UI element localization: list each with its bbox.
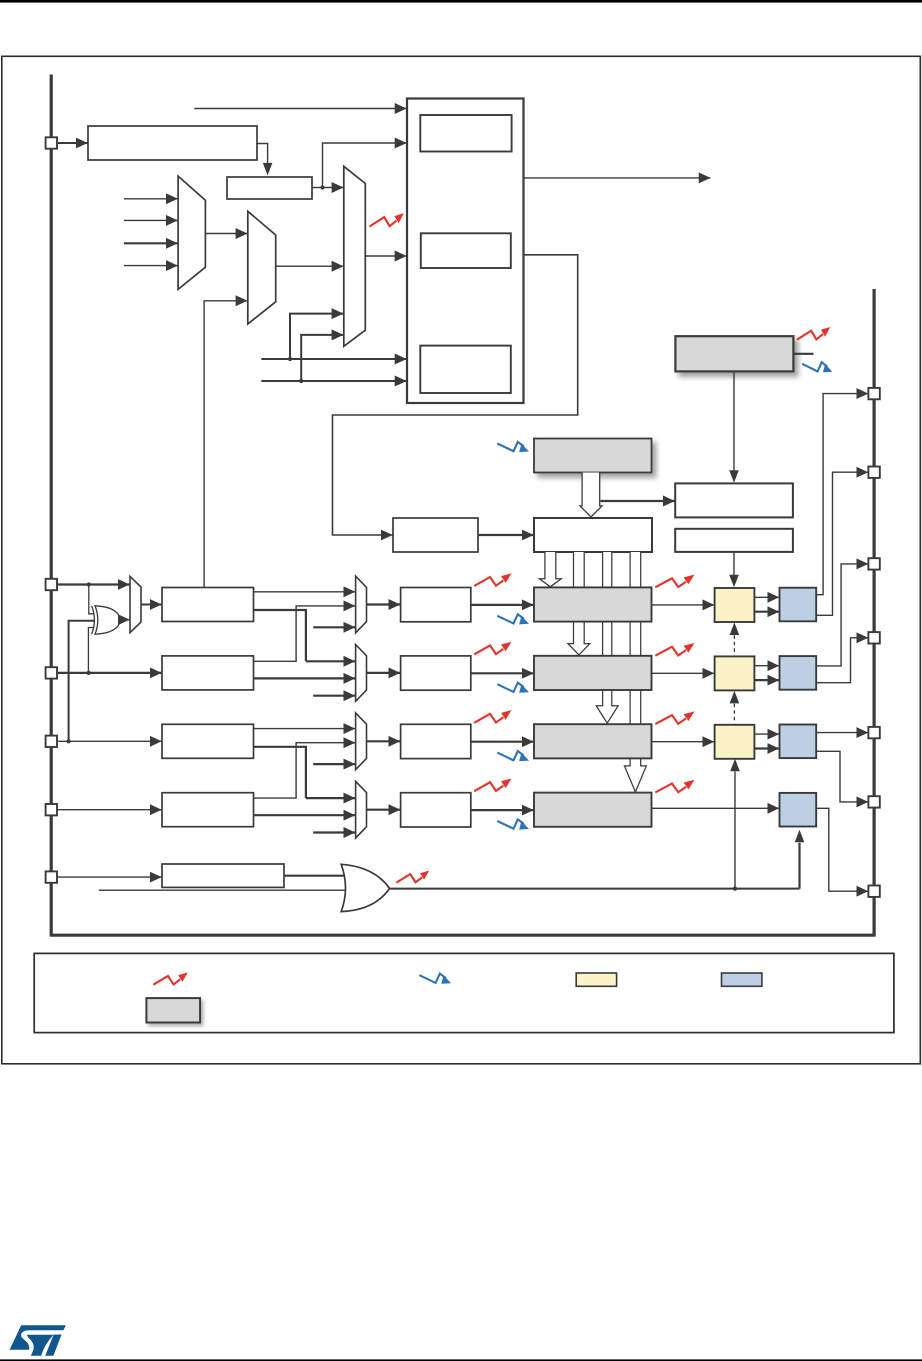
wire: OC2N to CH2N pin: [816, 638, 868, 683]
mux: capture input select ch4: [356, 781, 367, 838]
legend output stage box: [576, 973, 616, 986]
box: controller sub-block 2: [421, 233, 511, 268]
xor gate leading arc: [92, 606, 95, 634]
mux: capture input select ch1: [356, 576, 367, 633]
wire: controller input line 6: [261, 379, 406, 383]
box: input filter/edge detector ch3: [162, 724, 254, 758]
node: CH3N pin square: [868, 796, 879, 807]
wire: TI4FP4 to mux: [254, 814, 356, 816]
box: input capture prescaler ch3: [401, 724, 471, 758]
shadow+box: capture/compare register CCR4: [534, 793, 652, 827]
box: input capture prescaler ch4: [401, 793, 471, 827]
box: ETR polarity/edge/prescaler: [88, 126, 257, 160]
mux: trigger input mux (4-in): [178, 176, 205, 289]
node: TI2 input square: [46, 667, 57, 678]
box: output mode controller ch3: [715, 725, 755, 759]
wire: XOR input 1: [89, 585, 95, 614]
wire: ETRF up to OC3: [730, 759, 740, 889]
wire: ARR arrow to repetition register: [601, 500, 675, 502]
right bus (output pin rail): [872, 289, 875, 935]
wire: TRC stub ch3: [313, 763, 355, 765]
box: output mode controller ch2: [715, 656, 755, 690]
node: TI3 input square: [46, 736, 57, 747]
interrupt zigzag at CCR ch2: [497, 683, 529, 693]
wire: mux to prescaler ch1: [367, 603, 401, 605]
hollow arrow: ARR to counter: [580, 473, 602, 517]
wire: mux1 output: [205, 233, 247, 235]
node: CH2N pin square: [868, 632, 879, 643]
mux: TI1 source select: [130, 576, 141, 632]
dashed link OC3 to OC2: [730, 691, 740, 724]
node: TI1 input square: [46, 579, 57, 590]
wire: box2 out to mux SMS: [323, 187, 344, 189]
wire: BRK output line: [390, 887, 800, 891]
wire: OC4 to CH4 pin: [816, 808, 868, 891]
wire: XOR input 3: [88, 628, 94, 673]
box: external trigger filter: [227, 177, 312, 199]
wire: RCR UEV stub: [793, 353, 813, 355]
wire: CCR2 to output stage: [652, 672, 715, 674]
page bottom rule: [0, 1359, 922, 1361]
wire: mux1 input 3: [124, 242, 178, 244]
left bus (input pin rail): [50, 75, 53, 936]
legend event zigzag: [153, 972, 187, 984]
wire: controller input line 5: [261, 357, 406, 361]
box: prescaler PSC: [393, 518, 478, 552]
legend interrupt zigzag: [419, 974, 451, 984]
page top rule: [0, 0, 922, 3]
wire: TRGO output arrow: [524, 177, 711, 179]
wire: BRK up to OC4 enable: [795, 830, 805, 889]
wire: box2 output with junction: [312, 185, 325, 189]
event zigzag at prescaler ch4: [474, 779, 511, 792]
box: output enable circuit ch3: [780, 725, 817, 759]
legend preload register box: [146, 998, 200, 1022]
event zigzag at prescaler ch3: [474, 710, 511, 723]
node: CH1N pin square: [868, 467, 879, 478]
wire: mux3 output to controller: [365, 255, 406, 257]
node: CH4 pin square: [868, 886, 879, 897]
wire: OC2 to CH2 pin: [816, 564, 868, 666]
bottom bus connector: [50, 934, 876, 937]
event zigzag at break: [396, 871, 429, 883]
wire: prescaler to CCR ch3: [471, 741, 534, 743]
wire: OC3N to CH3N pin: [816, 751, 868, 802]
hollow arrow: counter to CCR2: [568, 552, 590, 655]
box: update event register: [675, 529, 793, 552]
block: trigger/slave mode controller: [407, 99, 524, 404]
event zigzag at prescaler ch2: [474, 642, 511, 655]
wire: OC2 ref arrows: [754, 666, 779, 680]
wire: OC3 to CH3 pin: [816, 732, 868, 734]
wire: OC1 to CH1 pin: [816, 394, 868, 595]
wire: prescaler to CCR ch2: [471, 672, 534, 674]
interrupt zigzag at ARR: [497, 442, 529, 452]
wire: clock loop to prescaler: [333, 255, 578, 535]
wire: TI1FP1 to mux: [254, 591, 356, 593]
box: input capture prescaler ch2: [401, 656, 471, 690]
shadow+box: auto-reload register ARR: [534, 439, 652, 473]
wire: top input line to trigger controller: [194, 108, 406, 110]
event zigzag at prescaler ch1: [474, 573, 511, 586]
wire: mux1 input 4: [124, 265, 178, 267]
wire: TI1 line: [57, 582, 129, 586]
wire: TRC stub ch2: [313, 695, 355, 697]
wire: XOR output to mux: [120, 619, 129, 621]
interrupt zigzag at CCR ch1: [497, 614, 529, 624]
event zigzag at CCR1 out: [655, 575, 694, 588]
event zigzag near mux3: [370, 213, 404, 226]
wire: TI4FP3 cross up: [254, 743, 356, 798]
legend frame: [34, 953, 894, 1032]
shadow+box: capture/compare register CCR3: [534, 724, 652, 758]
box: output mode controller ch1: [715, 588, 755, 622]
hollow arrow: counter to CCR3: [596, 552, 618, 723]
legend output enable box: [722, 973, 762, 986]
box: input filter/edge detector ch2: [162, 656, 254, 690]
wire: OC1N to CH1N pin: [816, 472, 868, 615]
box: output enable circuit ch2: [780, 656, 817, 690]
box: output enable circuit ch4: [780, 793, 817, 827]
ST logo: [10, 1325, 66, 1356]
wire: update register to OC1: [729, 552, 739, 587]
event zigzag at CCR4 out: [655, 780, 694, 793]
box: break polarity selector: [162, 864, 284, 887]
wire: polarity box to box2 (down): [257, 144, 272, 176]
box: input filter/edge detector ch1: [162, 588, 254, 622]
node: BKIN input square: [46, 871, 57, 882]
shadow+box: capture/compare register CCR1: [534, 587, 652, 621]
wire: prescaler to CCR ch1: [471, 604, 534, 606]
node: ETR input square on left bus: [46, 137, 57, 148]
wire: TI1FP2 cross down: [254, 610, 306, 661]
event zigzag at RCR: [797, 327, 830, 340]
box: counter CNT: [534, 518, 652, 552]
wire: TI3 line: [57, 739, 161, 743]
wire: PSC to CNT: [478, 534, 534, 536]
xor gate TI1 ED: [95, 606, 120, 634]
event zigzag at CCR2 out: [655, 643, 694, 656]
wire: tap up to mux3 input 4: [301, 335, 343, 381]
wire: ETR square to polarity box: [57, 142, 87, 144]
mux: capture input select ch2: [356, 645, 367, 702]
wire: TRC stub ch1: [313, 626, 355, 628]
box: repetition shadow register: [675, 483, 793, 517]
wire: mux to prescaler ch3: [367, 740, 401, 742]
box: controller sub-block 1: [420, 115, 511, 152]
node: CH1 pin square: [868, 388, 879, 399]
wire: RCR down to repetition register: [729, 371, 739, 482]
wire: polarity to OR gate: [284, 875, 345, 877]
mux: trigger select mux (2-in): [248, 211, 276, 324]
wire: BKIN line: [57, 876, 161, 878]
box: output enable circuit ch1: [780, 588, 817, 622]
wire: CCR3 to output stage: [652, 741, 715, 743]
figure frame: [2, 56, 921, 1064]
wire: clock fail input to OR: [99, 889, 346, 891]
event zigzag at CCR3 out: [655, 711, 694, 724]
hollow arrow: counter to CCR1: [539, 552, 561, 587]
node: CH2 pin square: [868, 558, 879, 569]
wire: mux2 output: [276, 265, 344, 267]
wire: TI1 mux to filter box: [141, 604, 162, 606]
box: input capture prescaler ch1: [401, 588, 471, 622]
mux: capture input select ch3: [356, 713, 367, 770]
shadow+box: capture/compare register CCR2: [534, 656, 652, 690]
wire: TI2FP1 cross up: [254, 606, 356, 661]
wire: TI1 edge tap up to mux2: [204, 301, 247, 588]
wire: TI2FP2 to mux: [254, 677, 356, 679]
wire: mux1 input 1: [124, 198, 178, 200]
node: CH3 pin square: [868, 727, 879, 738]
wire: TRC stub ch4: [313, 831, 355, 833]
wire: CCR1 to output stage: [652, 604, 715, 606]
wire: OC3 ref arrows: [754, 734, 779, 748]
hollow arrow: counter to CCR4: [624, 552, 646, 792]
wire: mux to prescaler ch2: [367, 672, 401, 674]
interrupt zigzag at CCR ch4: [497, 819, 529, 829]
wire: cross down into mux ch4: [306, 797, 355, 799]
wire: box2 out up to slave controller: [323, 143, 407, 188]
wire: TI3FP3 to mux: [254, 728, 356, 730]
wire: tap up to mux3 input 3: [290, 314, 343, 359]
wire: TI3FP4 cross down: [254, 747, 306, 798]
mux: slave-mode trigger mux (4-in): [344, 166, 366, 346]
wire: CCR4 to output enable: [652, 807, 780, 809]
box: controller sub-block 3: [420, 346, 511, 393]
wire: XOR input 2: [69, 621, 95, 742]
interrupt zigzag at CCR ch3: [497, 751, 529, 761]
node: TI4 input square: [46, 804, 57, 815]
box: input filter/edge detector ch4: [162, 793, 254, 827]
shadow+box: repetition counter RCR: [675, 336, 793, 371]
interrupt zigzag at RCR: [802, 362, 832, 372]
wire: prescaler to CCR ch4: [471, 809, 534, 811]
wire: mux1 input 2: [124, 219, 178, 221]
wire: mux to prescaler ch4: [367, 809, 401, 811]
wire: cross down into mux ch2: [306, 660, 355, 662]
wire: TI4 line: [57, 809, 161, 811]
dashed link OC2 to OC1: [730, 623, 740, 656]
wire: OC1 ref arrows: [754, 597, 779, 611]
wire: TI2 line: [57, 671, 161, 675]
or gate: break sources: [341, 864, 389, 911]
